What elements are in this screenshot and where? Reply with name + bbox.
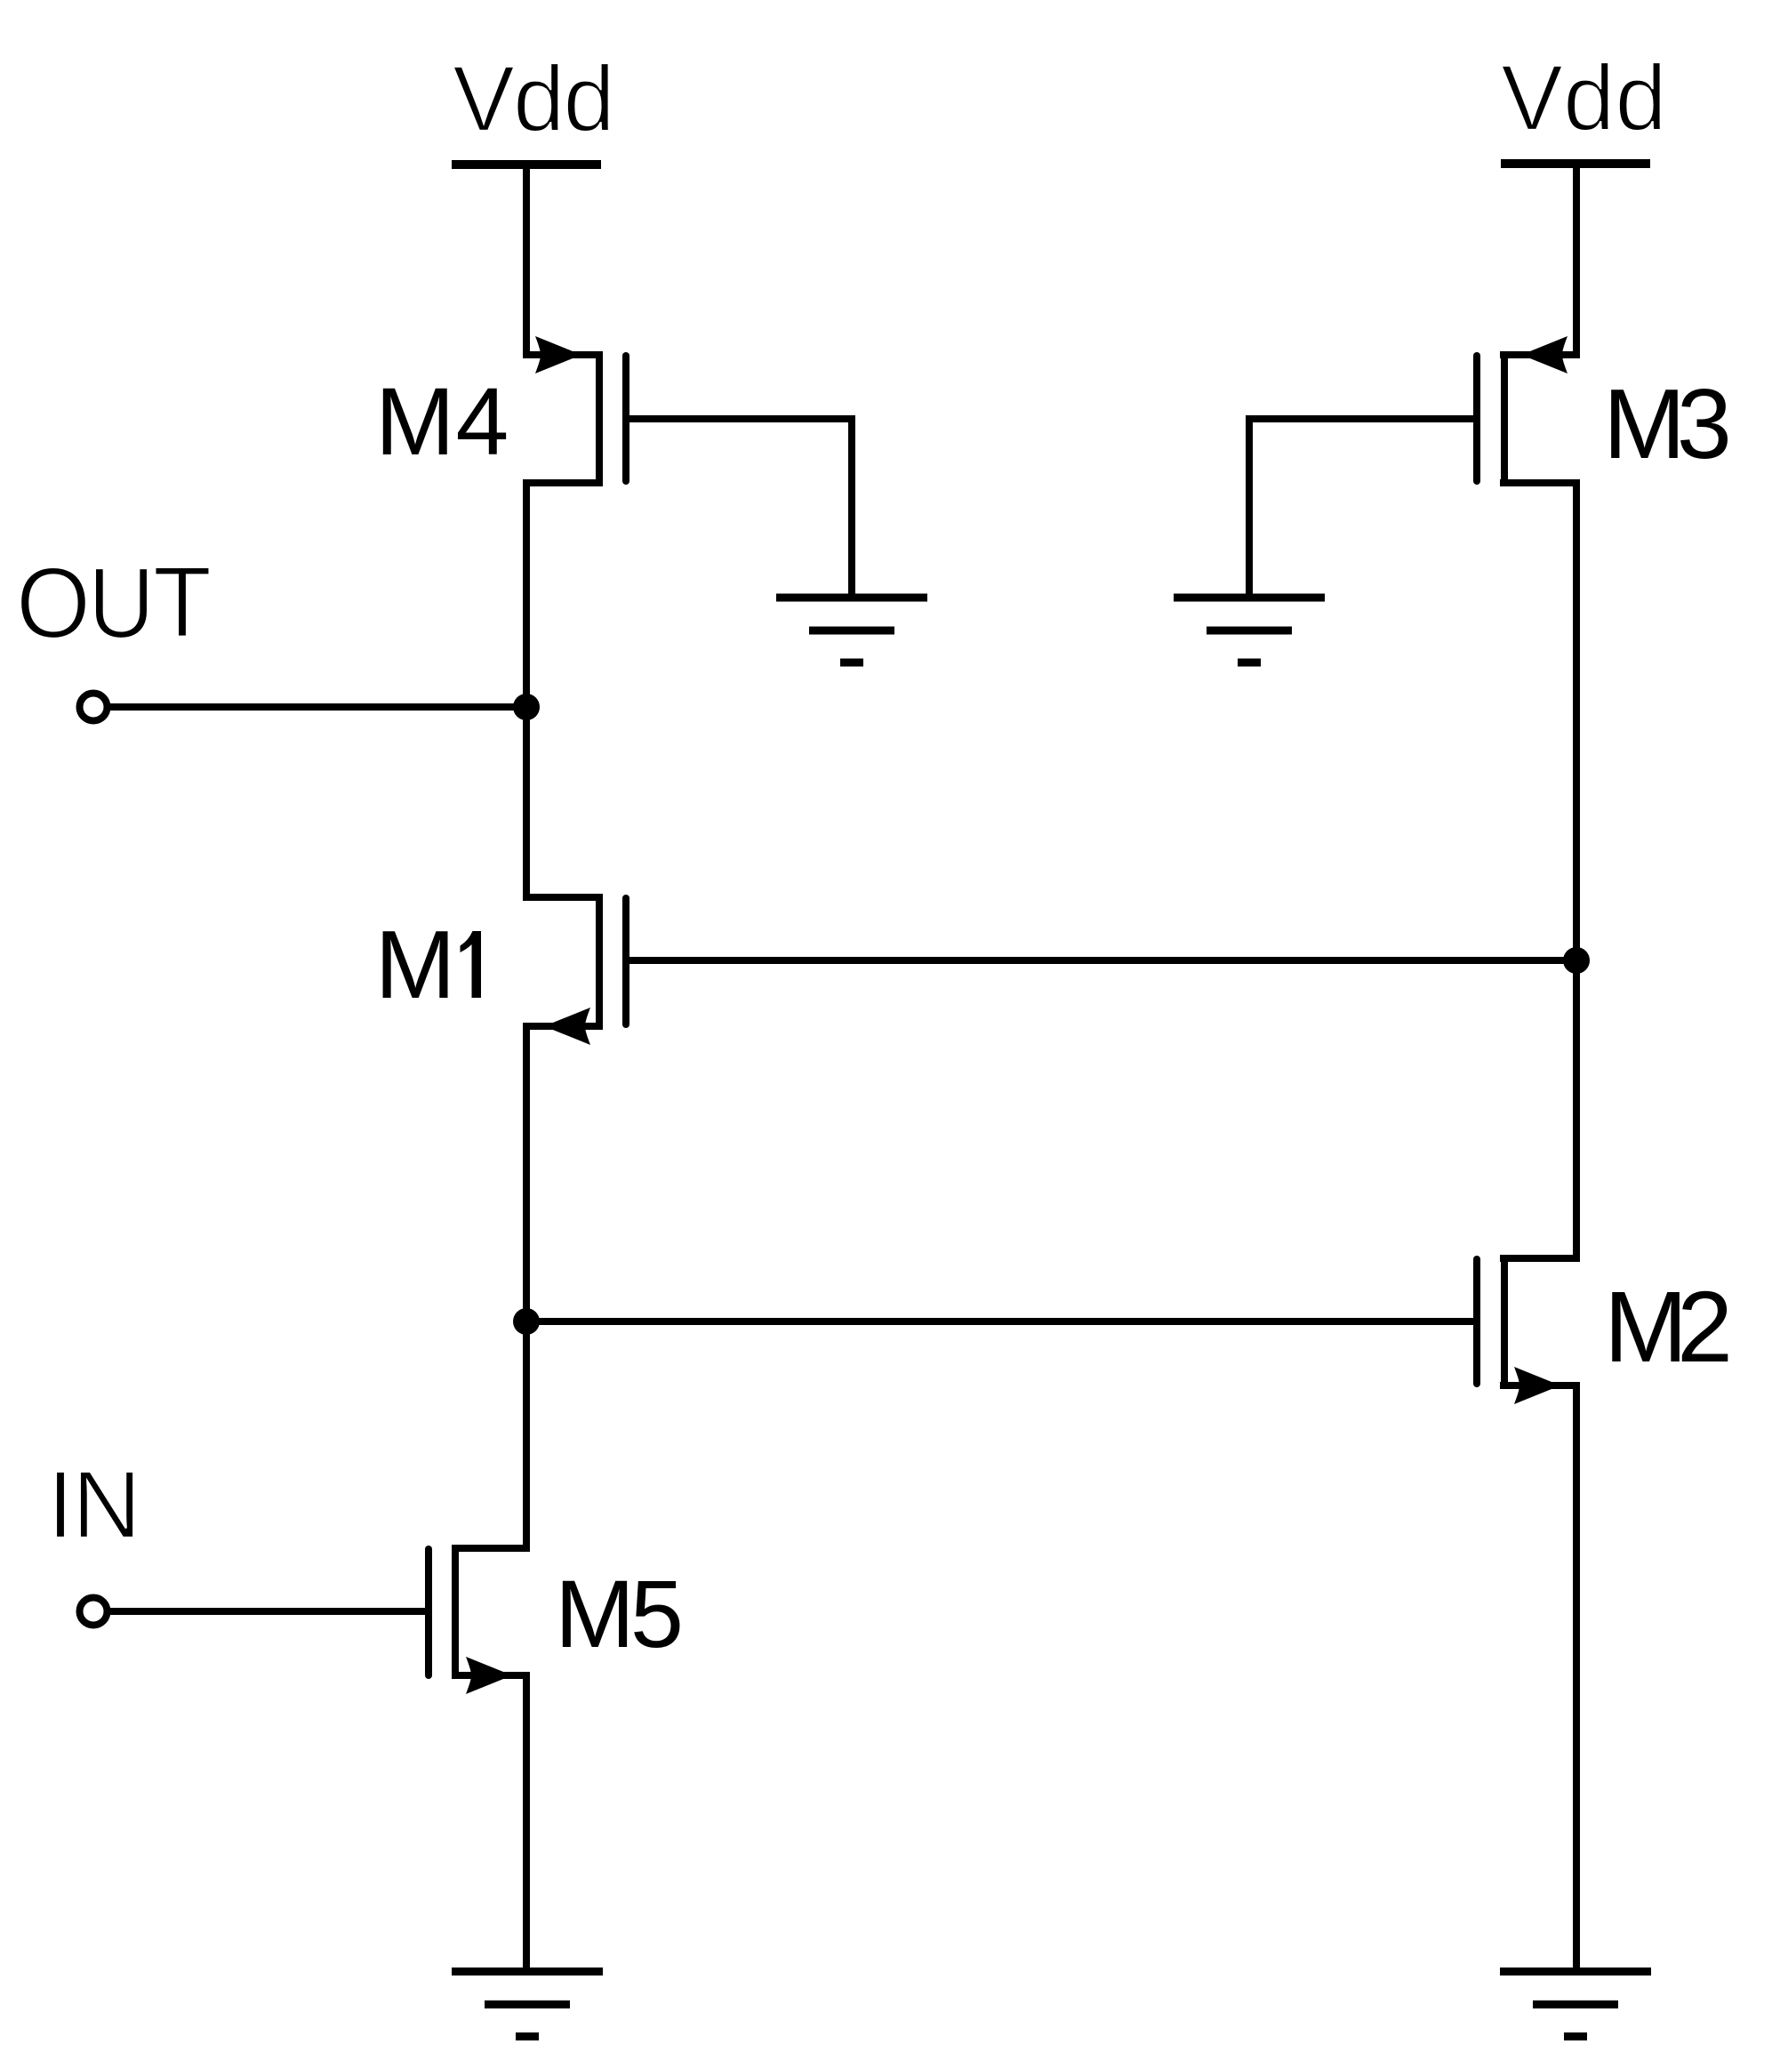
power Vdd bar (left) [452, 160, 601, 169]
net label Vdd (right) [1501, 46, 1667, 150]
label M5 [555, 1560, 684, 1667]
power Vdd bar (right) [1501, 159, 1650, 168]
terminal OUT [80, 694, 108, 721]
transistor M3 (PMOS, mirrored) [1477, 336, 1580, 486]
wire M2 gate [523, 1318, 1476, 1325]
transistor M5 (NMOS) [429, 1545, 530, 1694]
svg-text:M4: M4 [375, 368, 509, 475]
label M3 [1603, 368, 1732, 479]
net label OUT [16, 546, 212, 659]
wire M3 gate to ground [1249, 419, 1477, 598]
wire M4 gate to ground [626, 419, 852, 598]
wire Vdd(right) to M3 source [1573, 164, 1580, 358]
svg-text:M: M [375, 911, 456, 1019]
net label Vdd (left) [453, 47, 615, 151]
transistor M1 (PMOS) [523, 894, 626, 1045]
wire IN terminal to M5 gate [110, 1608, 429, 1615]
junction node (M1 gate / M3 drain) [1563, 947, 1590, 974]
wire M2 source to ground (right rail) [1573, 1385, 1580, 1972]
ground (below M4 gate) [776, 598, 927, 663]
wire M1 source to M5 drain (left rail) [523, 1026, 530, 1551]
label M4 [375, 368, 509, 475]
label M1 [375, 911, 481, 1019]
net label IN [47, 1450, 141, 1558]
svg-text:IN: IN [47, 1450, 141, 1558]
wire M3 drain to M2 drain (right rail) [1573, 483, 1580, 1262]
svg-text:Vdd: Vdd [1501, 46, 1667, 150]
svg-text:O: O [16, 547, 91, 659]
ground (below M3 gate) [1174, 598, 1325, 663]
wire OUT terminal to junction [110, 703, 526, 711]
svg-text:T: T [153, 546, 212, 658]
wire M5 source to ground (left rail) [523, 1675, 530, 1972]
wire M4 drain to M1 drain (left rail) [523, 483, 530, 901]
svg-text:Vdd: Vdd [453, 47, 615, 151]
terminal IN [80, 1598, 108, 1626]
wire Vdd(left) to M4 source [523, 165, 530, 358]
svg-text:M2: M2 [1604, 1271, 1733, 1383]
svg-text:M5: M5 [555, 1560, 684, 1667]
wire M1 gate to right rail node [626, 957, 1580, 964]
junction node (M2 gate tap) [513, 1308, 540, 1335]
svg-text:M3: M3 [1603, 368, 1732, 479]
ground (below M5) [452, 1972, 603, 2036]
junction node OUT [513, 694, 540, 720]
label M2 [1604, 1271, 1733, 1383]
transistor M2 (NMOS, mirrored) [1477, 1255, 1580, 1404]
svg-text:U: U [88, 547, 155, 659]
ground (below M2) [1500, 1972, 1651, 2036]
transistor M4 (PMOS) [523, 336, 626, 486]
